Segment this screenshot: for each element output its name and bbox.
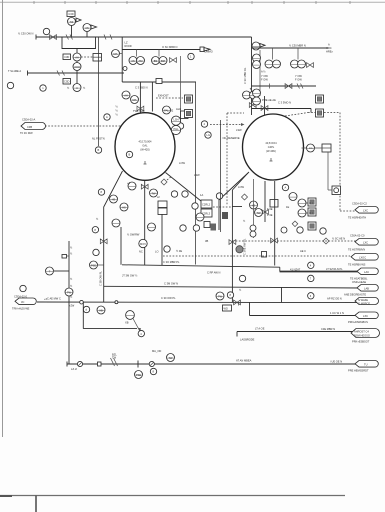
svg-text:MA: MA — [133, 98, 137, 102]
svg-text:N WAZE: N WAZE — [358, 298, 368, 302]
svg-text:LXC: LXC — [363, 209, 368, 213]
svg-text:RSM HEOSO: RSM HEOSO — [354, 334, 370, 338]
svg-text:C 3 3MO N: C 3 3MO N — [278, 101, 291, 105]
svg-text:TW: TW — [151, 191, 156, 195]
svg-text:43,170,004: 43,170,004 — [139, 140, 153, 144]
svg-text:LXC: LXC — [363, 314, 368, 318]
svg-text:EXHOST: EXHOST — [158, 94, 169, 98]
svg-text:AHH: AHH — [74, 65, 80, 69]
svg-text:LSW: LSW — [194, 173, 200, 177]
svg-text:HS: HS — [112, 197, 116, 201]
svg-text:MOV: MOV — [140, 242, 146, 246]
svg-text:C3B: C3B — [27, 125, 32, 129]
svg-text:AM: AM — [139, 59, 143, 63]
svg-text:GAL: GAL — [142, 143, 148, 147]
svg-text:OSR+AEAE: OSR+AEAE — [352, 280, 366, 284]
svg-text:AS: AS — [85, 26, 89, 30]
svg-text:LXOC: LXOC — [359, 256, 366, 260]
svg-text:C AE MW C: C AE MW C — [47, 296, 61, 300]
svg-text:TF 3C MW: TF 3C MW — [20, 131, 33, 135]
svg-text:LAU: LAU — [364, 270, 369, 274]
svg-text:O SC MBR N: O SC MBR N — [162, 45, 178, 49]
svg-text:LAB: LAB — [364, 287, 369, 291]
svg-text:PSE: PSE — [91, 263, 96, 267]
svg-text:LZ of: LZ of — [71, 367, 77, 371]
svg-text:CSD: CSD — [64, 80, 70, 84]
svg-text:LSW: LSW — [236, 128, 242, 132]
svg-text:F 3E: F 3E — [267, 213, 273, 217]
svg-text:B: B — [98, 148, 100, 152]
svg-text:AS: AS — [131, 59, 135, 63]
svg-text:LSH: LSH — [173, 118, 178, 122]
svg-text:BM: BM — [161, 59, 165, 63]
svg-text:½ C30 MBR N: ½ C30 MBR N — [289, 43, 306, 47]
svg-text:A: A — [76, 86, 78, 90]
svg-text:C 3O MBR PL: C 3O MBR PL — [163, 260, 180, 264]
svg-text:C 3B OW RL: C 3B OW RL — [99, 270, 103, 286]
svg-text:1A: 1A — [200, 193, 203, 197]
svg-text:F 3E: F 3E — [267, 207, 273, 211]
svg-text:T SL1ME A: T SL1ME A — [8, 69, 21, 73]
svg-text:ROOF: ROOF — [125, 44, 133, 48]
svg-text:HS: HS — [122, 205, 126, 209]
svg-text:AH: AH — [75, 55, 79, 59]
svg-text:+Zbf: +Zbf — [69, 303, 75, 307]
svg-text:TE HSTRBIVN: TE HSTRBIVN — [348, 248, 365, 252]
svg-text:Y OW: Y OW — [295, 74, 302, 78]
svg-text:AH1: AH1 — [176, 107, 182, 111]
svg-text:AS: AS — [70, 20, 74, 24]
svg-text:BS: BS — [154, 59, 158, 63]
svg-text:3C: 3C — [21, 300, 24, 304]
svg-text:F OW: F OW — [261, 78, 268, 82]
svg-text:½ SC AE N: ½ SC AE N — [332, 237, 345, 241]
svg-text:PRE HEMSSRDT: PRE HEMSSRDT — [348, 369, 369, 373]
svg-text:TU: TU — [364, 363, 368, 367]
svg-text:A: A — [285, 186, 287, 190]
svg-text:Y OW: Y OW — [261, 74, 268, 78]
svg-text:(W-4PA): (W-4PA) — [266, 149, 276, 153]
svg-text:LT SZ RLN PL: LT SZ RLN PL — [326, 267, 343, 271]
svg-text:C 3AE RW PL: C 3AE RW PL — [243, 238, 247, 255]
svg-text:HRC: HRC — [326, 46, 332, 50]
svg-text:TE HSRBIVNS: TE HSRBIVNS — [348, 263, 366, 267]
svg-text:AHROST C4: AHROST C4 — [354, 330, 369, 334]
svg-text:HREx: HREx — [326, 50, 333, 54]
svg-text:TW: TW — [67, 290, 72, 294]
svg-text:C2RL2: C2RL2 — [202, 203, 211, 207]
svg-text:MA: MA — [114, 52, 118, 56]
svg-text:½ OW/RW: ½ OW/RW — [127, 233, 140, 237]
svg-text:C3D: C3D — [68, 12, 73, 16]
svg-text:TE HSATBEBL: TE HSATBEBL — [350, 277, 368, 281]
svg-text:C4PL: C4PL — [268, 145, 275, 149]
svg-text:LO: LO — [155, 250, 158, 254]
svg-text:PRK+ESBSOT: PRK+ESBSOT — [352, 340, 370, 344]
svg-text:JT 3M OW ½: JT 3M OW ½ — [122, 273, 138, 277]
svg-text:TW: TW — [168, 356, 173, 360]
svg-text:TE HSRHEATH: TE HSRHEATH — [348, 216, 366, 220]
svg-text:C 3C MBR RL: C 3C MBR RL — [243, 67, 247, 84]
svg-text:C 30 OW PL: C 30 OW PL — [161, 296, 176, 300]
svg-text:ANE DEGREASTE: ANE DEGREASTE — [344, 292, 366, 296]
svg-text:O MSRCE: O MSRCE — [358, 301, 370, 305]
svg-text:43,8 OO4: 43,8 OO4 — [265, 141, 277, 145]
svg-text:LG: LG — [207, 133, 210, 137]
svg-text:41 NZAT: 41 NZAT — [290, 267, 301, 271]
svg-text:PHL: PHL — [173, 127, 179, 131]
svg-text:C3D: C3D — [64, 55, 69, 59]
svg-text:(W-420): (W-420) — [140, 148, 149, 152]
svg-text:F OW: F OW — [295, 78, 302, 82]
svg-text:1 UC W 1 N: 1 UC W 1 N — [330, 311, 344, 315]
svg-text:AH: AH — [124, 93, 128, 97]
svg-text:PRN+DSRGBCS: PRN+DSRGBCS — [348, 320, 368, 324]
svg-text:LXC: LXC — [363, 241, 368, 245]
svg-text:AE C: AE C — [300, 249, 306, 253]
svg-text:TRN+HLDVNE: TRN+HLDVNE — [12, 307, 30, 311]
svg-text:B: B — [129, 153, 131, 157]
svg-text:PSE: PSE — [136, 373, 141, 377]
svg-text:OIL RESERVE: OIL RESERVE — [223, 136, 240, 140]
svg-text:/ UE OE N: / UE OE N — [330, 359, 342, 363]
svg-text:A: A — [328, 43, 330, 47]
svg-text:C30A-02-C0: C30A-02-C0 — [350, 234, 365, 238]
svg-text:C3DA-02-C2: C3DA-02-C2 — [352, 202, 367, 206]
svg-text:C3DA-02-A: C3DA-02-A — [22, 118, 36, 122]
svg-text:A: A — [106, 115, 108, 119]
svg-text:LOW: LOW — [238, 185, 244, 189]
svg-text:TW: TW — [112, 355, 117, 359]
svg-text:½ C30 OW N: ½ C30 OW N — [18, 32, 34, 36]
svg-text:C RP AW N: C RP AW N — [207, 270, 221, 274]
svg-text:MA_OD: MA_OD — [152, 349, 161, 353]
svg-text:NC: NC — [139, 250, 143, 254]
svg-text:TW: TW — [218, 294, 223, 298]
svg-text:HB: HB — [99, 308, 103, 312]
svg-text:DMMO: DMMO — [205, 50, 213, 54]
svg-text:PAL: PAL — [164, 108, 169, 112]
svg-text:C3E MBR N: C3E MBR N — [321, 327, 335, 331]
svg-text:LAGBRODE: LAGBRODE — [240, 338, 255, 342]
svg-text:WD: WD — [224, 307, 228, 311]
svg-text:LG: LG — [309, 146, 312, 150]
svg-text:LOW: LOW — [179, 161, 185, 165]
svg-text:1E: 1E — [286, 205, 289, 209]
svg-text:C 3 3BO N: C 3 3BO N — [135, 85, 148, 89]
svg-text:TW: TW — [256, 211, 261, 215]
svg-text:AP RZ OE N: AP RZ OE N — [327, 297, 342, 301]
svg-text:LT A OE: LT A OE — [255, 327, 265, 331]
svg-text:PME AE.AE: PME AE.AE — [262, 98, 276, 102]
svg-text:C 3M OW N: C 3M OW N — [164, 282, 178, 286]
svg-text:3B: 3B — [205, 239, 208, 243]
svg-text:AT AN MBEA: AT AN MBEA — [236, 359, 252, 363]
svg-text:½ 3E: ½ 3E — [176, 249, 182, 253]
svg-text:XB: XB — [125, 320, 129, 324]
